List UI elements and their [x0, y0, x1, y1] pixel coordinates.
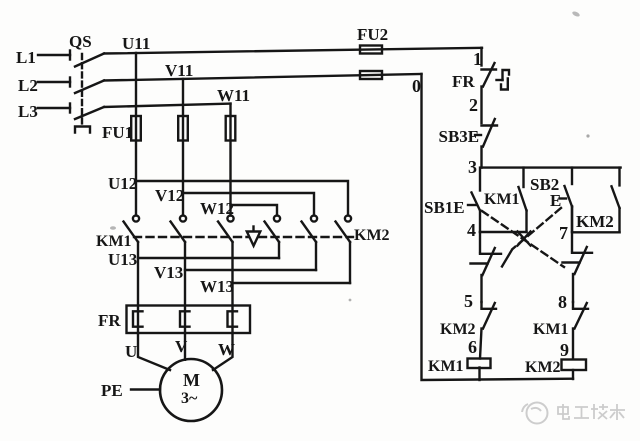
thermal relay FR heater V: [180, 311, 190, 326]
watermark logo: [522, 403, 548, 424]
svg-text:U13: U13: [108, 250, 137, 269]
button SB2 NC contact (below node 4): [479, 232, 481, 252]
svg-text:U12: U12: [108, 174, 137, 193]
switch QS handle: [75, 127, 90, 133]
node 4: [467, 220, 476, 240]
node 5: [464, 291, 473, 311]
node U11: [122, 34, 150, 53]
wire to node 9: [572, 329, 574, 360]
node 8: [558, 292, 567, 312]
node L3: [18, 102, 38, 121]
contactor KM1 NC interlock contact: [572, 302, 574, 307]
relay FR NC contact: [482, 68, 497, 70]
wire node 4: [480, 231, 527, 233]
node PE: [101, 381, 123, 400]
node 9: [560, 340, 569, 360]
wire KM2-1 lower vertical: [278, 242, 280, 258]
wire KM1-W lower vertical: [231, 242, 233, 333]
scan speck: [110, 226, 116, 230]
svg-text:KM2: KM2: [440, 321, 476, 338]
svg-text:V12: V12: [155, 186, 184, 205]
svg-text:4: 4: [467, 220, 476, 240]
wire V11 vertical: [182, 79, 184, 216]
fuse FU2 upper: [360, 46, 382, 54]
fuse FU2 label: [357, 25, 388, 44]
node V: [175, 337, 188, 356]
contactor KM2 main contact 2: [311, 215, 317, 221]
svg-text:SB1E: SB1E: [424, 198, 465, 217]
node U: [125, 342, 137, 361]
svg-text:L2: L2: [18, 76, 38, 95]
svg-text:3~: 3~: [181, 390, 198, 407]
node 7: [559, 223, 568, 243]
svg-text:FU2: FU2: [357, 25, 388, 44]
svg-text:L1: L1: [16, 48, 36, 67]
fuse FU1 label: [102, 123, 133, 142]
wire KM1-U lower vertical: [137, 242, 139, 333]
wire W13: [233, 282, 351, 284]
wire KM2-3 lower vertical: [349, 242, 351, 283]
svg-text:KM2: KM2: [354, 227, 390, 244]
contactor KM1 main contact W: [227, 215, 233, 221]
svg-text:KM1: KM1: [428, 358, 464, 375]
node U12: [108, 174, 137, 193]
node U13: [108, 250, 137, 269]
node W11: [217, 86, 250, 105]
node V12: [155, 186, 184, 205]
svg-text:V11: V11: [165, 61, 193, 80]
svg-text:KM1: KM1: [533, 321, 569, 338]
node V13: [154, 263, 183, 282]
mechanical linkage dashed KM1-KM2: [134, 236, 353, 238]
wire phase bus 1 (L1 to control): [104, 48, 482, 54]
svg-text:KM2: KM2: [525, 359, 561, 376]
svg-text:M: M: [183, 370, 200, 390]
thermal relay FR label: [98, 311, 121, 330]
svg-text:V: V: [175, 337, 188, 356]
mechanical interlock triangle: [252, 227, 254, 232]
wire motor lead V: [184, 333, 186, 360]
svg-text:PE: PE: [101, 381, 123, 400]
svg-text:E: E: [550, 191, 561, 210]
svg-text:5: 5: [464, 291, 473, 311]
wire U13: [138, 257, 279, 259]
wire U11 vertical: [135, 53, 137, 216]
svg-text:2: 2: [469, 95, 478, 115]
svg-text:6: 6: [468, 337, 477, 357]
wire coil KM2 to bottom bus: [572, 370, 574, 379]
fuse FU2 lower: [360, 71, 382, 79]
wire to node 6: [480, 329, 482, 359]
node 0: [412, 76, 421, 96]
scan speck: [572, 10, 581, 17]
wire node2-node3: [480, 147, 482, 168]
button SB1 NO contact: [479, 168, 481, 191]
mechanical link SB1 dashed diagonal: [482, 211, 564, 267]
contactor KM2 aux contact: [618, 168, 620, 186]
coil KM1: [468, 359, 491, 369]
wire W11 vertical: [229, 104, 231, 216]
svg-text:W13: W13: [200, 277, 234, 296]
svg-text:U11: U11: [122, 34, 150, 53]
button SB3 label: [439, 127, 480, 146]
svg-text:FU1: FU1: [102, 123, 133, 142]
wire phase bus 3 (L3 to W11): [104, 104, 231, 107]
svg-text:W11: W11: [217, 86, 250, 105]
node 1: [473, 49, 482, 69]
wire L3: [38, 107, 70, 109]
watermark text (stylized): [558, 404, 625, 420]
svg-text:W: W: [218, 340, 235, 359]
node W13: [200, 277, 234, 296]
switch QS pole 2 blade: [75, 81, 104, 94]
thermal relay FR heater W: [228, 311, 238, 326]
svg-text:9: 9: [560, 340, 569, 360]
node L2: [18, 76, 38, 95]
relay FR actuator symbol: [497, 79, 503, 81]
thermal relay FR body: [127, 306, 251, 334]
svg-text:1: 1: [473, 49, 482, 69]
wire node 0 bus (left vertical + bottom): [422, 74, 574, 380]
svg-text:0: 0: [412, 76, 421, 96]
fuse FU1 phase V: [178, 116, 188, 141]
contactor KM2 label (main contacts): [354, 227, 390, 244]
svg-text:FR: FR: [98, 311, 121, 330]
node L1: [16, 48, 36, 67]
wire L2: [38, 81, 70, 83]
contactor KM1 main contact V: [180, 215, 186, 221]
node 2: [469, 95, 478, 115]
svg-text:KM1: KM1: [484, 191, 520, 208]
wire L1: [38, 54, 70, 56]
motor M circle: [160, 359, 222, 421]
svg-text:7: 7: [559, 223, 568, 243]
svg-text:8: 8: [558, 292, 567, 312]
svg-text:SB3E: SB3E: [439, 127, 480, 146]
fuse FU1 phase W: [226, 116, 236, 141]
scan speck: [586, 134, 589, 137]
switch QS pole 1 blade: [75, 54, 104, 67]
fuse FU1 phase U: [131, 116, 141, 141]
wire phase bus 2 (L2 to node 0): [104, 74, 422, 81]
contactor KM1 main contact U: [133, 215, 139, 221]
svg-text:KM1: KM1: [96, 233, 132, 250]
wire SB1 to node 4: [479, 211, 481, 233]
switch QS label: [69, 32, 92, 51]
wire motor lead W: [213, 333, 233, 370]
wire V13: [185, 269, 316, 271]
wire node 3 rail: [482, 166, 621, 168]
switch QS linkage dashed: [81, 54, 83, 125]
node W: [218, 340, 235, 359]
switch QS pole 3 blade: [75, 107, 104, 119]
wire SB2 to node 7: [571, 207, 573, 232]
wire U12 tap: [136, 181, 348, 216]
node 3: [468, 157, 477, 177]
crossover X mark: [518, 232, 531, 246]
contactor KM1 aux contact: [522, 168, 524, 187]
wire coil KM1 to bottom bus: [478, 368, 480, 381]
contactor KM2 main contact 3: [345, 215, 351, 221]
svg-text:3: 3: [468, 157, 477, 177]
contactor KM2 NC interlock contact: [480, 302, 482, 307]
wire W12 tap: [231, 205, 278, 216]
svg-text:QS: QS: [69, 32, 92, 51]
wire KM1-V lower vertical: [184, 242, 186, 333]
contactor KM2 main contact 1: [274, 215, 280, 221]
node V11: [165, 61, 193, 80]
wire PE: [131, 388, 160, 390]
svg-text:V13: V13: [154, 263, 183, 282]
wire motor lead U: [138, 333, 170, 370]
svg-text:U: U: [125, 342, 137, 361]
wire KM2-2 lower vertical: [315, 242, 317, 270]
svg-text:FR: FR: [452, 72, 475, 91]
node W12: [200, 199, 234, 218]
wire node1-node2: [480, 87, 482, 124]
button SB2 NO contact: [571, 168, 573, 184]
svg-text:KM2: KM2: [576, 212, 614, 231]
button SB3 NC contact: [482, 124, 498, 126]
coil KM2: [562, 360, 587, 371]
wire control right vertical top (node 1): [480, 48, 482, 66]
wire V12 tap: [183, 193, 314, 216]
svg-text:L3: L3: [18, 102, 38, 121]
mechanical link SB2 dashed diagonal: [513, 208, 562, 249]
thermal relay FR heater U: [133, 311, 143, 326]
scan speck: [349, 299, 352, 302]
button SB1 NC contact (below node 7): [571, 207, 573, 252]
relay FR label: [452, 72, 475, 91]
node 6: [468, 337, 477, 357]
contactor KM1 label (main contacts): [96, 233, 132, 250]
wire node 7: [572, 231, 620, 233]
